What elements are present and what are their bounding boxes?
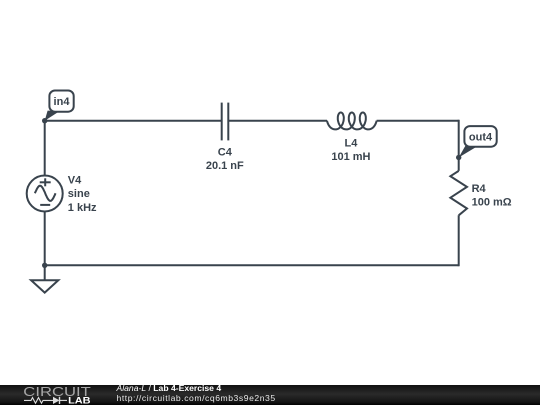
resistor R4 [450, 171, 467, 215]
flag in4 tail [45, 111, 60, 121]
flag out4 box [464, 126, 496, 147]
wire top-left (node in4 to C4 left plate) [45, 120, 222, 122]
flag out4 tail [459, 145, 479, 157]
wire left vertical upper (node in4 to V4 top) [44, 120, 46, 176]
svg-text:20.1 nF: 20.1 nF [206, 160, 244, 172]
inductor L4 [327, 113, 377, 130]
wire right vertical (corner to R4 top) [458, 121, 459, 171]
ground [31, 280, 58, 292]
svg-text:out4: out4 [469, 132, 493, 144]
footer text [117, 384, 276, 403]
svg-text:L4: L4 [344, 138, 358, 150]
svg-text:101 mH: 101 mH [331, 151, 370, 163]
svg-text:R4: R4 [472, 183, 487, 195]
svg-text:100 mΩ: 100 mΩ [472, 197, 512, 209]
svg-text:V4: V4 [68, 174, 82, 186]
svg-text:in4: in4 [54, 96, 71, 108]
wire R4 bottom to bottom-right corner [458, 215, 459, 265]
svg-text:C4: C4 [218, 146, 233, 158]
wire C4 right plate to L4 [228, 120, 327, 122]
wire L4 to top-right corner [377, 120, 459, 122]
flag in4 box [49, 91, 73, 112]
CircuitLab logo [23, 385, 103, 405]
voltage source V4 [27, 176, 63, 212]
wire left vertical lower (V4 bottom to ground node) [44, 212, 46, 266]
wire ground stem [44, 265, 46, 280]
footer bar [0, 385, 540, 405]
node in4 junction dot [42, 118, 47, 123]
ground node junction dot [42, 263, 47, 268]
wire bottom (ground node to bottom-right corner) [45, 264, 459, 266]
capacitor C4 [222, 103, 229, 141]
svg-text:1 kHz: 1 kHz [68, 202, 97, 214]
node out4 junction dot [456, 155, 461, 160]
svg-text:sine: sine [68, 188, 90, 200]
svg-text:LAB: LAB [68, 395, 91, 405]
